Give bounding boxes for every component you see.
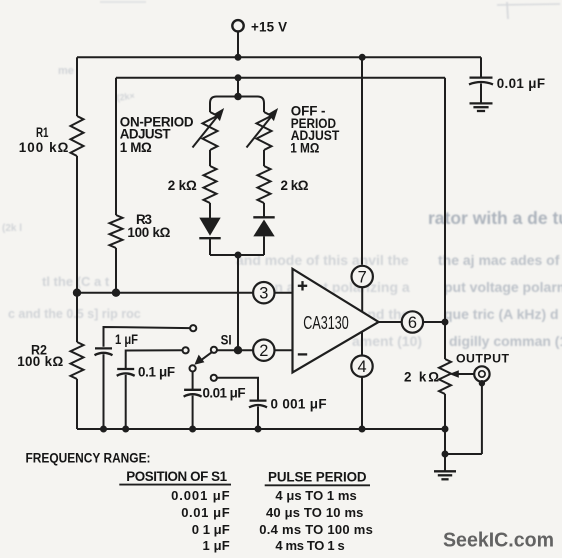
svg-text:put voltage polarm: put voltage polarm <box>444 279 562 295</box>
decoupling capacitor 0.01uF at top right <box>480 57 482 77</box>
wire: pin 2 into op-amp <box>275 349 293 351</box>
svg-text:1 μF: 1 μF <box>203 538 230 553</box>
svg-text:the aj mac ades of thi: the aj mac ades of thi <box>438 252 562 268</box>
resistor 2k (right branch) <box>258 166 271 203</box>
svg-text:2 kΩ: 2 kΩ <box>404 369 439 384</box>
svg-text:CA3130: CA3130 <box>303 313 348 333</box>
svg-text:SeekIC.com: SeekIC.com <box>443 528 554 551</box>
wire: output pot bottom to ground bus <box>444 394 446 429</box>
svg-text:SI: SI <box>221 332 232 347</box>
wire: pin 6 to right bus <box>424 321 445 323</box>
svg-text:4: 4 <box>357 358 366 376</box>
potentiometer 2k output level <box>439 359 451 394</box>
wire: left diode to branch-join rail <box>209 238 211 255</box>
wire: branch-join rail at bottom of diode branches <box>210 254 264 256</box>
wire: right diode to branch-join rail <box>263 236 265 255</box>
ground bus (bottom horizontal wire) <box>77 428 445 430</box>
wire: op-amp tip to pin 6 <box>379 321 402 323</box>
wire: left bus vertical (R1/R2 branch) <box>76 57 78 116</box>
wire: 0.01uF bottom lead <box>192 396 194 429</box>
diode D1 (left, steering) <box>199 218 220 239</box>
svg-text:0.1 μF: 0.1 μF <box>138 364 175 379</box>
wire: 0.01uF top lead <box>192 372 194 390</box>
diode D2 (right, steering) <box>253 217 274 236</box>
svg-text:0.01 μF: 0.01 μF <box>497 76 545 91</box>
svg-text:1 μF: 1 μF <box>115 332 138 347</box>
ground symbol (top right) <box>480 83 482 103</box>
wire: 0.001uF bottom lead <box>257 406 259 429</box>
wire: 0.1uF top lead to contact <box>126 350 183 368</box>
svg-text:PULSE PERIOD: PULSE PERIOD <box>268 469 367 484</box>
svg-text:0.01 μF: 0.01 μF <box>203 385 246 400</box>
svg-text:POSITION OF S1: POSITION OF S1 <box>126 469 227 484</box>
node: +15V junction on +V rail <box>235 54 242 61</box>
svg-text:0.4 ms TO 100 ms: 0.4 ms TO 100 ms <box>259 522 373 537</box>
resistor R2 100k <box>71 342 84 379</box>
svg-text:2 kΩ: 2 kΩ <box>281 178 309 193</box>
resistor R3 100k <box>110 215 123 248</box>
op-amp pin 6 <box>402 311 423 332</box>
wire: left branch between pot and 2k <box>209 150 211 166</box>
svg-text:100 kΩ: 100 kΩ <box>17 354 63 369</box>
+V rail (top horizontal wire) <box>77 56 481 58</box>
capacitor 1uF plates <box>95 348 113 355</box>
wire: pin 3 into op-amp <box>275 292 293 294</box>
svg-text:1 MΩ: 1 MΩ <box>290 141 319 156</box>
ground symbol (bottom) <box>444 454 446 471</box>
wire: pin 4 down to ground bus <box>361 377 363 429</box>
svg-text:2 kΩ: 2 kΩ <box>168 178 197 193</box>
wire: timing node vertical down to S1 / pin 2 line <box>237 255 239 350</box>
wire: below bus to ground join <box>444 429 446 454</box>
node: pot branch split <box>234 93 242 101</box>
svg-text:c and the 0.5 s] rip roc: c and the 0.5 s] rip roc <box>8 307 141 321</box>
svg-text:que tric (A kHz) d: que tric (A kHz) d <box>444 306 559 322</box>
switch S1 arm with arrow <box>194 352 211 364</box>
+15V supply terminal <box>232 20 243 57</box>
wire: output terminal return to ground <box>479 380 485 386</box>
svg-text:1 MΩ: 1 MΩ <box>120 140 152 155</box>
wire: pin 7 into op-amp top edge <box>361 288 363 312</box>
svg-text:rator with a de tunin: rator with a de tunin <box>428 208 562 228</box>
svg-text:0 001 μF: 0 001 μF <box>271 397 327 412</box>
resistor R1 100k <box>71 116 84 156</box>
svg-text:4 ms TO 1 s: 4 ms TO 1 s <box>275 538 344 553</box>
capacitor 0.1uF plates <box>117 369 135 376</box>
node: output pot at ground bus <box>442 426 449 433</box>
wire: 1uF bottom lead <box>103 354 105 429</box>
OUTPUT terminal <box>474 366 489 381</box>
wire: R3 branch vertical <box>115 78 117 215</box>
wire: inverting input line (pin 2) <box>217 349 253 351</box>
switch contact for 0.001uF <box>211 375 217 381</box>
wire: non-inverting input line (pin 3) <box>77 292 253 294</box>
wire: op-amp bottom edge to pin 4 <box>361 332 363 355</box>
faint page bleed-through, decorative <box>2 2 562 349</box>
switch S1 pole <box>211 347 217 353</box>
wire: right 2k to diode <box>263 203 265 217</box>
svg-text:4 μs TO 1 ms: 4 μs TO 1 ms <box>275 488 356 503</box>
wire: 1uF cap top lead to contact <box>104 327 191 347</box>
svg-text:+15 V: +15 V <box>251 20 287 35</box>
feedback rail (second horizontal wire) <box>116 77 445 79</box>
svg-text:OUTPUT: OUTPUT <box>456 351 509 365</box>
op-amp - input marking <box>298 353 307 355</box>
wire: stem from feedback rail to pot branch split <box>237 78 239 97</box>
op-amp pin 3 <box>253 282 274 303</box>
op-amp pin 4 <box>351 356 372 377</box>
svg-text:3: 3 <box>259 285 268 303</box>
svg-text:(2k l: (2k l <box>2 223 22 234</box>
switch contact for 1uF <box>190 325 196 331</box>
node: timing node joins pin 2 line <box>234 346 242 354</box>
node: junction on feedback rail feeding pots <box>235 74 242 81</box>
capacitor 0.01uF plates <box>184 390 202 397</box>
wire: 0.1uF bottom lead <box>125 375 127 429</box>
svg-text:R1: R1 <box>36 125 49 140</box>
op-amp pin 2 <box>253 340 274 361</box>
svg-text:FREQUENCY RANGE:: FREQUENCY RANGE: <box>26 450 151 465</box>
svg-text:0.01 μF: 0.01 μF <box>181 505 230 520</box>
node: pin3 line at left bus <box>73 289 81 297</box>
wire: right bus vertical (feedback rail down to output pot) <box>444 78 446 322</box>
capacitor 0.001uF plates <box>249 401 267 408</box>
svg-text:digilly comman (1C: digilly comman (1C <box>449 333 562 349</box>
wire: pin 7 supply vertical from +V rail <box>359 54 366 61</box>
potentiometer: OFF-PERIOD ADJUST 1M (right branch) <box>247 108 279 150</box>
op-amp U1 CA3130 triangle <box>293 269 379 373</box>
wiper arrow of output pot <box>449 370 474 378</box>
wire: right branch between pot and 2k <box>263 150 265 166</box>
svg-text:0 1 μF: 0 1 μF <box>192 522 230 537</box>
svg-text:40 μs TO 10 ms: 40 μs TO 10 ms <box>266 505 363 520</box>
switch contact for 0.01uF <box>190 365 196 371</box>
node: pin3 line at R3 <box>112 289 120 297</box>
wire: split bracket to the two pot branches <box>210 97 264 113</box>
wire: 0.001uF contact lead over and down <box>217 378 258 400</box>
svg-text:tl the (C a t: tl the (C a t <box>42 274 110 289</box>
resistor 2k (left branch) <box>204 166 217 203</box>
svg-text:me: me <box>58 65 74 77</box>
node: pin 6 output joins right bus <box>442 319 449 326</box>
svg-text:6: 6 <box>408 314 417 332</box>
switch contact for 0.1uF <box>183 347 189 353</box>
potentiometer: ON-PERIOD ADJUST 1M (left branch) <box>193 108 225 150</box>
svg-text:0.001 μF: 0.001 μF <box>171 488 230 503</box>
capacitor 0.01uF plates <box>469 78 493 85</box>
svg-text:7: 7 <box>358 268 367 286</box>
op-amp pin 7 <box>352 266 373 287</box>
svg-text:2: 2 <box>259 342 268 360</box>
svg-text:100 kΩ: 100 kΩ <box>127 225 170 240</box>
node: diode branches join <box>235 252 242 259</box>
wire: left 2k to diode <box>209 203 211 218</box>
op-amp + input marking <box>298 285 307 287</box>
